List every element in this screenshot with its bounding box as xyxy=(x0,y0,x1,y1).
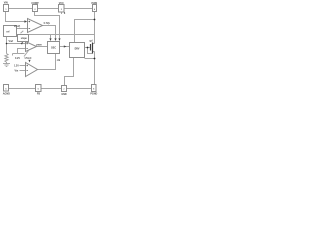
wire VIN pin down to A1 plus xyxy=(6,12,25,22)
svg-text:clk: clk xyxy=(57,59,61,62)
arrow into A1 plus xyxy=(24,20,27,23)
svg-text:AGND: AGND xyxy=(3,93,10,96)
arrow into logic from COMP xyxy=(58,38,60,41)
svg-text:FB: FB xyxy=(37,93,40,96)
wire COMP pin down right and down into logic xyxy=(35,12,60,40)
junction dot source sense xyxy=(94,58,96,60)
svg-text:8: 8 xyxy=(64,12,66,15)
pin P8 PGND xyxy=(92,85,97,92)
svg-text:UVLO: UVLO xyxy=(25,57,32,60)
block slope comp xyxy=(18,35,29,42)
junction dot P4 branch xyxy=(94,19,96,21)
pin P5 AGND xyxy=(4,85,9,92)
transistor Q1 xyxy=(91,43,93,54)
wire REF down to resistor xyxy=(6,37,8,54)
pin P3 VCC xyxy=(59,5,65,13)
pin P7 GND xyxy=(62,86,67,92)
wire top bus xyxy=(9,8,93,10)
svg-text:COMP: COMP xyxy=(31,2,39,5)
svg-text:Vref: Vref xyxy=(9,40,14,43)
wire branch to driver top xyxy=(75,20,95,43)
wire rail branch into logic xyxy=(50,35,52,40)
op-amp A1 error amp xyxy=(28,19,43,33)
wire source down to PGND pin xyxy=(94,52,96,85)
wire source stub xyxy=(93,51,95,53)
svg-text:Vin: Vin xyxy=(15,70,19,73)
svg-text:PGND: PGND xyxy=(90,93,97,96)
wire A1 output to logic xyxy=(43,26,56,40)
wire bottom bus xyxy=(9,88,92,90)
wire A3 input stubs xyxy=(20,66,26,71)
op-amp A2 pwm comparator xyxy=(26,42,37,52)
svg-text:ISNS: ISNS xyxy=(92,2,98,5)
arrow logic to driver xyxy=(64,45,67,47)
svg-text:0.2V: 0.2V xyxy=(15,57,20,60)
wire P3 stub xyxy=(61,12,63,14)
svg-text:slope: slope xyxy=(21,38,28,40)
resistor R1 xyxy=(5,54,8,64)
svg-text:gd: gd xyxy=(90,39,93,42)
arrow into logic from A1 xyxy=(54,38,56,41)
svg-text:1.2V: 1.2V xyxy=(14,64,19,67)
svg-text:GND: GND xyxy=(61,93,67,96)
plus minus marks A1 xyxy=(29,21,31,29)
junction dot REF branch xyxy=(6,43,8,45)
plus minus marks A2 xyxy=(26,43,27,49)
wire logic to driver xyxy=(60,46,70,48)
svg-text:OSC: OSC xyxy=(51,47,56,49)
wire P7 riser to driver bottom xyxy=(65,58,74,86)
svg-text:ref: ref xyxy=(6,31,9,33)
wire drain stub xyxy=(93,43,95,45)
svg-text:DRV: DRV xyxy=(75,48,80,50)
wire A2 out to logic xyxy=(37,46,48,48)
arrow A3 top xyxy=(28,60,30,63)
op-amp A3 comparator xyxy=(26,63,38,77)
wire gate node down to source xyxy=(88,48,93,54)
ground xyxy=(3,64,10,67)
arrow into logic from rail xyxy=(49,38,51,41)
wire P4 pin down xyxy=(94,12,96,44)
wire slope diagonal into A2 xyxy=(24,51,29,57)
wire REF branch to A2 plus xyxy=(7,43,26,45)
wire gate xyxy=(85,47,91,49)
wire A2 minus step xyxy=(13,49,26,56)
plus minus marks A3 xyxy=(27,65,28,71)
wire A3 out up into logic bottom xyxy=(38,54,56,70)
svg-text:VCC: VCC xyxy=(59,2,64,5)
junction dot gate xyxy=(87,47,89,49)
wire REF out to A1 minus xyxy=(17,28,28,30)
pin P4 ISNS xyxy=(93,5,97,12)
pin P6 FB xyxy=(36,85,42,92)
wire slope arrow above block xyxy=(21,31,24,34)
svg-text:VIN: VIN xyxy=(4,2,8,5)
block logic xyxy=(48,42,60,54)
block REF xyxy=(4,26,17,37)
svg-text:0.7Vp: 0.7Vp xyxy=(44,22,51,25)
pin P1 VIN xyxy=(4,5,9,12)
svg-text:pwm: pwm xyxy=(36,43,41,46)
svg-text:V(ref): V(ref) xyxy=(14,25,20,28)
pin P2 COMP xyxy=(33,5,38,12)
arrow into slope block bottom xyxy=(21,42,24,45)
wire SW rail xyxy=(18,34,95,36)
block driver xyxy=(70,43,85,58)
wire sense xyxy=(85,58,95,60)
